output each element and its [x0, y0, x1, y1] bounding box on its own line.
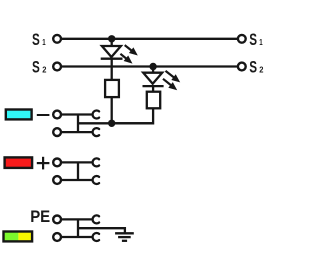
terminal circle PE lower	[53, 233, 61, 241]
wire bridge minus	[77, 115, 79, 133]
wire D2 cathode to R2	[152, 86, 154, 92]
wire PE bus to ground	[78, 228, 125, 233]
svg-text:S: S	[32, 31, 40, 49]
wire R2 down to minus bus	[112, 108, 153, 123]
terminal circle minus upper	[53, 111, 61, 119]
terminal S2 right label	[249, 59, 263, 77]
wire D2 anode	[152, 67, 154, 74]
wire PE upper	[62, 218, 92, 220]
svg-text:2: 2	[259, 65, 263, 75]
wire minus upper	[62, 113, 92, 115]
terminal circle plus upper	[53, 159, 61, 167]
contact spring minus lower	[93, 128, 100, 136]
resistor R2	[147, 92, 160, 109]
svg-text:S: S	[249, 59, 257, 77]
wire S2 bus	[62, 65, 238, 67]
marker plus terminal (red)	[5, 157, 32, 168]
plus sign	[37, 157, 50, 170]
svg-text:2: 2	[42, 65, 46, 75]
terminal circle PE upper	[53, 216, 61, 224]
terminal S1 right circle	[238, 35, 246, 43]
terminal S2 left label	[32, 59, 47, 77]
node junction J3 on minus bus	[108, 120, 115, 127]
wire minus lower	[62, 131, 92, 133]
terminal S1 right label	[249, 31, 263, 49]
terminal S1 left circle	[53, 35, 61, 43]
contact spring PE upper	[93, 215, 100, 223]
wire minus bus	[78, 122, 153, 124]
ground	[115, 233, 134, 241]
wire bridge PE	[77, 219, 79, 237]
wire R1 to node J3	[111, 97, 113, 123]
wire plus lower	[62, 179, 92, 181]
LED D2	[143, 71, 181, 90]
terminal circle plus lower	[53, 176, 61, 184]
svg-text:PE: PE	[30, 208, 50, 226]
terminal S1 left label	[32, 31, 46, 49]
svg-text:1: 1	[42, 37, 46, 47]
svg-text:S: S	[32, 59, 40, 77]
minus sign	[37, 114, 50, 116]
svg-text:S: S	[249, 31, 257, 49]
svg-text:1: 1	[259, 37, 263, 47]
wire D1 cathode to R1	[111, 59, 113, 80]
contact spring plus upper	[93, 158, 100, 166]
terminal S2 right circle	[238, 63, 246, 71]
contact spring PE lower	[93, 233, 100, 241]
resistor R1	[105, 80, 119, 97]
marker PE (green/yellow)	[4, 232, 33, 242]
contact spring plus lower	[93, 176, 100, 184]
node junction J2 on S2	[149, 63, 156, 70]
marker minus terminal (cyan)	[6, 110, 32, 120]
wire bridge plus	[77, 162, 79, 180]
wire D1 anode	[111, 39, 113, 46]
wire S1 bus	[62, 38, 238, 40]
terminal S2 left circle	[53, 63, 61, 71]
LED D1	[101, 45, 138, 64]
contact spring minus upper	[93, 111, 100, 119]
wire PE lower	[62, 236, 92, 238]
node junction J1 on S1	[108, 35, 115, 42]
wire plus upper	[62, 161, 92, 163]
terminal circle minus lower	[53, 128, 61, 136]
